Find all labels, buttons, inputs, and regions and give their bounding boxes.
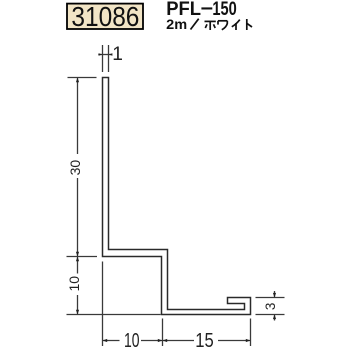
arrows dim1 (99, 53, 103, 56)
dim10 bottom extension line (67, 314, 161, 316)
svg-text:1: 1 (112, 44, 123, 65)
svg-text:2m: 2m (166, 16, 187, 32)
dim1 bar (98, 54, 111, 56)
svg-text:30: 30 (67, 160, 83, 176)
bottom dim line segments (103, 340, 120, 342)
dim3 extension lines (256, 297, 285, 299)
arrows dim10 left (76, 257, 79, 262)
fullwidth slash (191, 19, 199, 30)
svg-text:15: 15 (195, 330, 214, 350)
model dash (201, 7, 212, 9)
kana to (247, 19, 252, 30)
kana wa (218, 21, 227, 30)
profile outline (103, 78, 251, 315)
svg-text:10: 10 (66, 276, 82, 292)
svg-text:31086: 31086 (71, 1, 139, 32)
bottom dim extension verticals (102, 262, 104, 347)
dim30 top extension line (68, 77, 97, 79)
svg-text:10: 10 (124, 330, 140, 350)
svg-text:3: 3 (263, 303, 278, 311)
kana i (232, 20, 240, 30)
dim30/dim10 middle extension line (67, 256, 98, 258)
svg-text:150: 150 (212, 0, 236, 20)
arrows dim30 (76, 78, 79, 83)
dim3 vertical stubs (274, 291, 276, 298)
part number box (67, 4, 143, 29)
dim10 left line (77, 257, 79, 274)
kana ho (205, 21, 216, 30)
dim30 line (77, 78, 79, 155)
arrows bottom dims (103, 339, 108, 342)
arrows dim3 (273, 293, 276, 298)
dim1 extension lines (102, 45, 104, 72)
